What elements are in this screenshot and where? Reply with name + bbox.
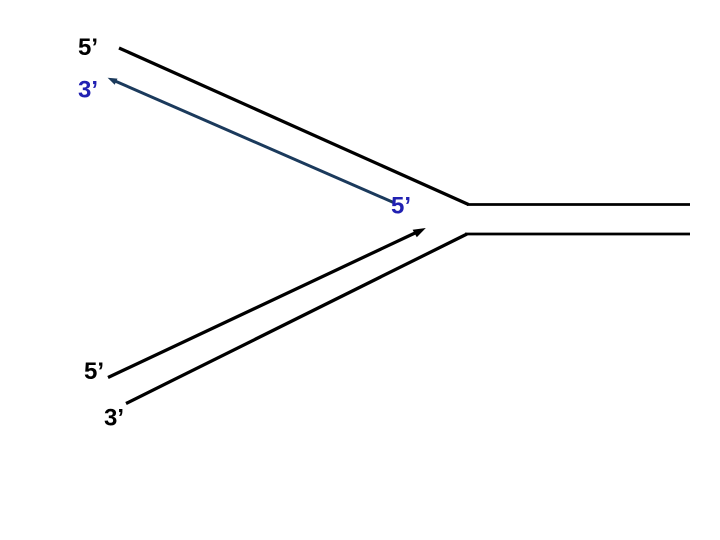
svg-text:3’: 3’ bbox=[78, 77, 98, 104]
arrow: lagging strand synthesis (black, points up-right) bbox=[108, 228, 426, 378]
svg-text:5’: 5’ bbox=[391, 193, 411, 220]
wire: top parental strand diagonal bbox=[119, 48, 469, 205]
svg-text:5’: 5’ bbox=[84, 358, 104, 385]
svg-text:3’: 3’ bbox=[104, 405, 124, 432]
wire: top parental strand horizontal (duplex upper) bbox=[467, 203, 690, 206]
svg-text:5’: 5’ bbox=[78, 34, 98, 61]
wire: bottom parental strand horizontal (duplex lower) bbox=[465, 233, 690, 236]
arrow: leading strand synthesis (dark navy, points up-left) bbox=[108, 78, 394, 203]
wire: bottom parental strand diagonal bbox=[126, 234, 467, 404]
